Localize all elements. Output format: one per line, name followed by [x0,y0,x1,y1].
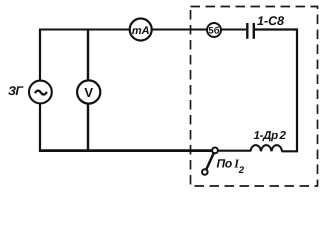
svg-text:V: V [84,85,93,100]
svg-text:1-С8: 1-С8 [257,14,284,28]
svg-text:5б: 5б [208,26,219,37]
milliammeter mA [130,19,152,41]
wire: top horizontal (source top to capacitor left plate) [39,28,246,30]
switch lower terminal [202,169,208,175]
svg-text:mA: mA [132,25,150,37]
svg-text:ПоI2: ПоI2 [217,157,245,177]
AC source tilde [35,91,47,95]
wire: voltmeter branch vertical [87,30,89,151]
dashed enclosure box [191,7,318,187]
AC source ЗГ circle [29,81,52,104]
inductor 1-Др2 [251,145,283,151]
wire: left vertical (source branch) [39,30,41,151]
svg-text:1-Др2: 1-Др2 [254,130,287,142]
capacitor C8 left plate [246,23,248,39]
svg-text:ЗГ: ЗГ [8,84,24,98]
wire: capacitor right plate to top-right corner and down right side to inductor [255,30,298,152]
voltmeter V [77,80,100,103]
wire: switch to inductor [218,150,251,152]
terminal 5б [207,23,221,37]
switch pivot terminal [212,148,218,154]
switch blade [206,153,214,170]
capacitor C8 right plate [253,23,255,39]
wire: bottom horizontal (to switch) [39,149,212,152]
